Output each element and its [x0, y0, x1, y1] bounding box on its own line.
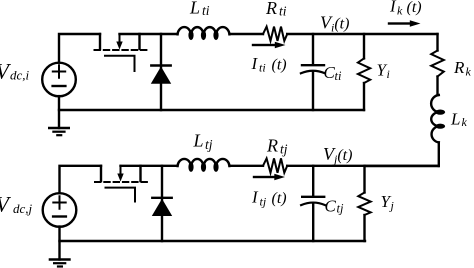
svg-text:(t): (t): [407, 0, 422, 16]
svg-text:C: C: [325, 197, 337, 216]
svg-text:V: V: [0, 192, 12, 217]
svg-text:L: L: [450, 110, 460, 129]
svg-text:(t): (t): [272, 190, 287, 207]
svg-text:tj: tj: [260, 195, 267, 209]
svg-text:tj: tj: [205, 137, 213, 152]
svg-text:R: R: [265, 0, 277, 18]
svg-text:tj: tj: [280, 142, 288, 157]
svg-text:Vj(t): Vj(t): [323, 144, 352, 166]
svg-text:k: k: [462, 115, 468, 129]
svg-text:(t): (t): [272, 57, 287, 74]
svg-text:I: I: [251, 54, 259, 73]
svg-text:ti: ti: [335, 69, 342, 83]
svg-text:L: L: [189, 0, 200, 18]
svg-text:tj: tj: [337, 202, 344, 216]
svg-text:dc,i: dc,i: [10, 68, 30, 83]
svg-text:R: R: [266, 136, 278, 156]
svg-text:I: I: [389, 0, 397, 16]
svg-text:ti: ti: [259, 61, 266, 75]
svg-text:L: L: [193, 131, 204, 151]
svg-text:ti: ti: [279, 4, 287, 19]
svg-text:ti: ti: [202, 3, 210, 18]
svg-text:k: k: [466, 65, 472, 79]
svg-text:k: k: [397, 4, 403, 18]
svg-text:Vi(t): Vi(t): [320, 13, 349, 35]
svg-text:I: I: [251, 188, 259, 207]
svg-text:R: R: [453, 58, 465, 77]
svg-text:i: i: [387, 67, 390, 81]
svg-text:dc,j: dc,j: [13, 201, 33, 216]
